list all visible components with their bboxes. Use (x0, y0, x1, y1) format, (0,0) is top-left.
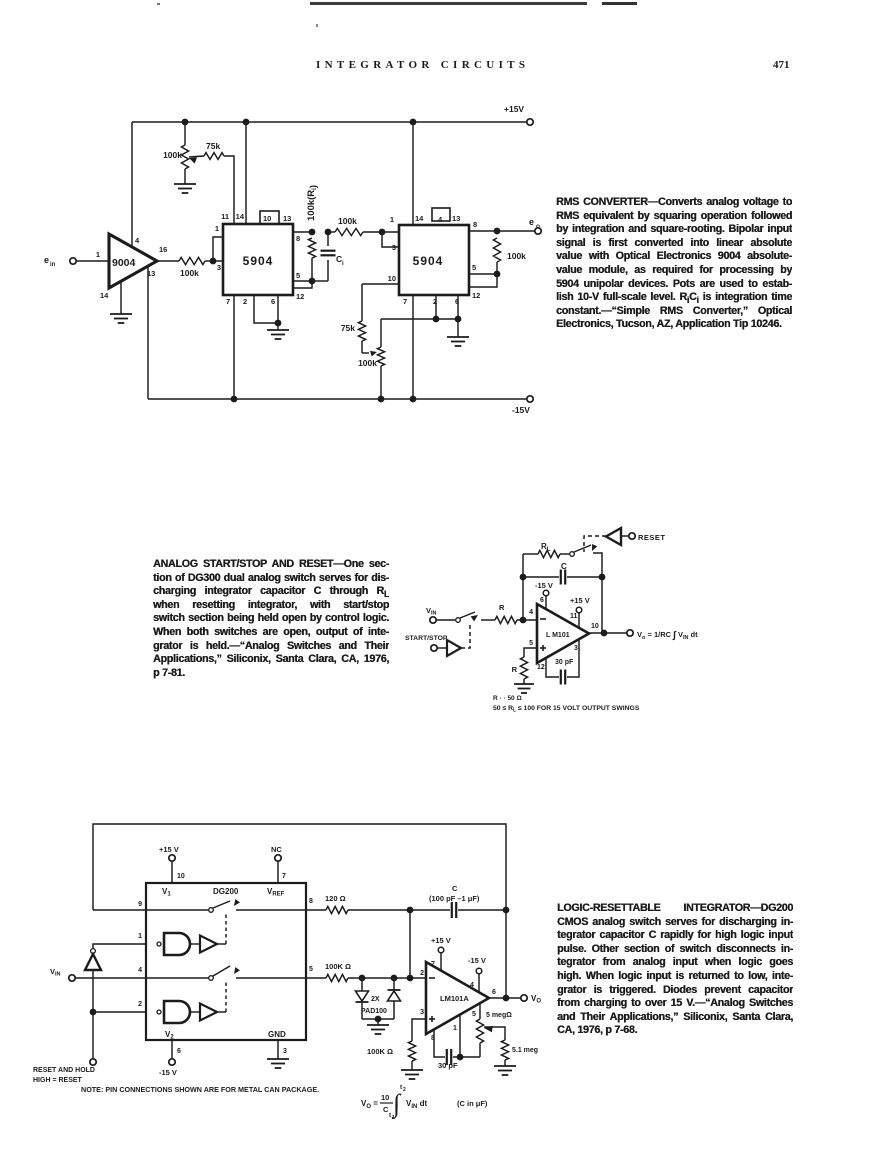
svg-text:9: 9 (138, 901, 142, 908)
svg-text:2: 2 (420, 970, 424, 977)
svg-text:30 pF: 30 pF (438, 1061, 458, 1070)
svg-text:14: 14 (236, 212, 245, 221)
svg-text:3: 3 (420, 1009, 424, 1016)
svg-text:C: C (452, 884, 458, 893)
svg-text:1: 1 (453, 1025, 457, 1032)
svg-text:V2: V2 (165, 1030, 174, 1041)
svg-text:8: 8 (473, 220, 477, 229)
svg-text:R: R (512, 665, 518, 674)
svg-text:4: 4 (138, 967, 142, 974)
svg-text:5: 5 (309, 966, 313, 973)
svg-text:6: 6 (492, 989, 496, 996)
svg-text:6: 6 (271, 297, 275, 306)
svg-text:11: 11 (221, 212, 229, 221)
svg-text:5: 5 (472, 1011, 476, 1018)
svg-text:12: 12 (296, 292, 304, 301)
svg-text:14: 14 (100, 291, 109, 300)
svg-text:6: 6 (177, 1048, 181, 1055)
svg-text:3: 3 (574, 645, 578, 652)
svg-text:1: 1 (96, 250, 100, 259)
svg-text:4: 4 (438, 215, 443, 224)
svg-text:7: 7 (403, 297, 407, 306)
svg-text:i: i (342, 261, 344, 267)
svg-text:5.1 meg: 5.1 meg (512, 1047, 538, 1054)
svg-text:100k: 100k (507, 251, 526, 261)
svg-text:VIN dt: VIN dt (406, 1099, 427, 1110)
svg-text:PAD100: PAD100 (361, 1008, 387, 1015)
svg-text:7: 7 (282, 873, 286, 880)
svg-text:in: in (50, 262, 56, 268)
svg-text:VREF: VREF (267, 887, 285, 898)
svg-text:1: 1 (215, 224, 219, 233)
svg-text:NC: NC (271, 845, 282, 854)
svg-text:5: 5 (529, 640, 533, 647)
svg-text:VIN: VIN (426, 606, 437, 617)
svg-text:16: 16 (159, 245, 167, 254)
svg-text:30 pF: 30 pF (555, 659, 574, 666)
svg-text:100K Ω: 100K Ω (367, 1047, 393, 1056)
svg-text:2X: 2X (371, 996, 380, 1003)
svg-text:HIGH = RESET: HIGH = RESET (33, 1077, 83, 1084)
svg-text:R: R (499, 603, 505, 612)
svg-text:12: 12 (537, 664, 545, 671)
svg-text:1: 1 (390, 215, 394, 224)
svg-text:VO: VO (531, 994, 541, 1005)
svg-text:75k: 75k (341, 323, 355, 333)
svg-text:5 megΩ: 5 megΩ (486, 1012, 512, 1019)
svg-text:4: 4 (529, 609, 533, 616)
svg-text:4: 4 (470, 982, 474, 989)
svg-text:75k: 75k (206, 141, 220, 151)
svg-text:6: 6 (540, 597, 544, 604)
svg-text:C: C (561, 562, 567, 571)
svg-text:+15V: +15V (504, 104, 524, 114)
svg-text:100k: 100k (338, 216, 357, 226)
svg-text:V1: V1 (162, 887, 171, 898)
svg-text:13: 13 (283, 214, 291, 223)
svg-text:9004: 9004 (112, 257, 136, 269)
svg-text:100K Ω: 100K Ω (325, 962, 351, 971)
svg-text:START/STOP: START/STOP (405, 635, 448, 642)
svg-text:-15 V: -15 V (159, 1068, 177, 1077)
svg-text:R · · 50 Ω: R · · 50 Ω (493, 695, 522, 702)
svg-text:7: 7 (431, 961, 435, 968)
svg-text:+15 V: +15 V (570, 596, 590, 605)
svg-text:1: 1 (392, 1115, 395, 1121)
svg-text:12: 12 (472, 291, 480, 300)
svg-text:-15V: -15V (512, 405, 530, 415)
svg-text:e: e (529, 217, 534, 227)
svg-text:3: 3 (392, 243, 396, 252)
svg-text:(100 pF –1 μF): (100 pF –1 μF) (429, 894, 480, 903)
svg-text:LM101A: LM101A (440, 994, 469, 1003)
svg-text:5: 5 (296, 271, 300, 280)
svg-text:8: 8 (296, 234, 300, 243)
svg-text:10: 10 (263, 214, 271, 223)
svg-text:100k: 100k (180, 268, 199, 278)
svg-text:50 ≤ RL ≤ 100 FOR 15 VOLT OUTP: 50 ≤ RL ≤ 100 FOR 15 VOLT OUTPUT SWINGS (493, 705, 640, 714)
svg-text:(C in μF): (C in μF) (457, 1099, 488, 1108)
svg-text:3: 3 (217, 263, 221, 272)
svg-text:100k: 100k (358, 358, 377, 368)
svg-text:Vo = 1/RC ∫ VIN dt: Vo = 1/RC ∫ VIN dt (637, 630, 698, 641)
svg-text:VO =: VO = (361, 1099, 378, 1110)
svg-text:GND: GND (268, 1030, 286, 1039)
svg-text:2: 2 (403, 1087, 406, 1093)
svg-text:14: 14 (415, 214, 424, 223)
svg-text:+15 V: +15 V (159, 845, 179, 854)
svg-text:e: e (44, 255, 49, 265)
svg-text:10: 10 (381, 1093, 389, 1102)
svg-text:RESET AND HOLD: RESET AND HOLD (33, 1067, 95, 1074)
svg-text:-15 V: -15 V (535, 581, 553, 590)
svg-text:5904: 5904 (243, 254, 274, 268)
svg-text:NOTE: PIN CONNECTIONS SHOWN AR: NOTE: PIN CONNECTIONS SHOWN ARE FOR META… (81, 1085, 319, 1094)
svg-text:DG200: DG200 (213, 887, 239, 896)
svg-text:RL: RL (541, 542, 551, 553)
svg-text:3: 3 (283, 1048, 287, 1055)
svg-text:+15 V: +15 V (431, 936, 451, 945)
svg-text:L M101: L M101 (546, 632, 570, 639)
svg-text:5904: 5904 (413, 254, 444, 268)
svg-text:VIN: VIN (50, 967, 61, 978)
svg-text:10: 10 (591, 623, 599, 630)
svg-text:7: 7 (226, 297, 230, 306)
svg-text:100k: 100k (163, 150, 182, 160)
svg-text:8: 8 (309, 898, 313, 905)
svg-text:o: o (536, 223, 540, 230)
svg-text:RESET: RESET (638, 533, 666, 542)
svg-text:100k(Ri): 100k(Ri) (306, 185, 319, 221)
svg-text:13: 13 (452, 214, 460, 223)
svg-text:11: 11 (570, 613, 578, 620)
svg-text:10: 10 (177, 873, 185, 880)
svg-text:4: 4 (135, 236, 140, 245)
svg-text:2: 2 (243, 297, 247, 306)
svg-text:-15 V: -15 V (468, 956, 486, 965)
svg-text:1: 1 (138, 933, 142, 940)
svg-text:120 Ω: 120 Ω (325, 894, 346, 903)
svg-text:8: 8 (431, 1035, 435, 1042)
svg-text:10: 10 (388, 274, 396, 283)
svg-text:2: 2 (138, 1001, 142, 1008)
svg-text:5: 5 (472, 263, 476, 272)
